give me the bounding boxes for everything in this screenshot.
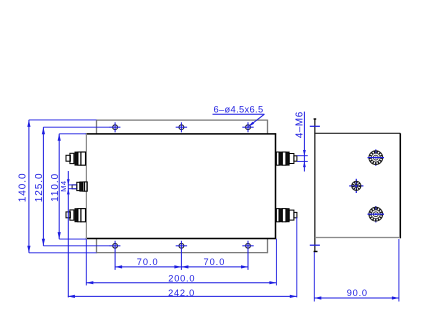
dimension 140.0 vertical line — [27, 120, 96, 253]
side view flange lip — [314, 119, 318, 253]
side view connector top M6 — [368, 149, 384, 165]
terminal stud right-top M6 — [276, 152, 297, 165]
svg-text:140.0: 140.0 — [18, 173, 29, 203]
side view hole centerline tick top — [310, 125, 320, 127]
mounting hole top-right — [242, 122, 253, 132]
dimension 90.0 — [314, 239, 399, 302]
dimension 125.0 vertical line — [42, 127, 109, 246]
dimension 200.0 — [86, 239, 276, 286]
svg-text:125.0: 125.0 — [34, 173, 45, 203]
svg-text:70.0: 70.0 — [203, 257, 225, 267]
svg-text:4–M6: 4–M6 — [294, 111, 305, 138]
svg-text:70.0: 70.0 — [137, 257, 159, 267]
svg-text:242.0: 242.0 — [168, 288, 195, 298]
side view connector middle M4 — [349, 179, 363, 193]
mounting hole top-left — [109, 122, 120, 132]
mounting hole bottom-right — [242, 241, 253, 270]
label 6-dia4.5x6.5 with leader — [213, 114, 265, 127]
terminal stud left-bottom M6 — [66, 209, 86, 222]
mounting hole bottom-left — [109, 241, 120, 270]
side view body box — [315, 133, 401, 238]
terminal stud left-top M6 — [66, 152, 86, 165]
side view connector bottom M6 — [368, 206, 384, 222]
dimension M4 with arrows — [67, 171, 77, 297]
mounting hole bottom-middle — [176, 241, 187, 270]
svg-text:90.0: 90.0 — [347, 288, 368, 298]
front view body box — [86, 133, 276, 239]
dimension 70.0 second — [181, 265, 248, 268]
side view hole centerline tick bottom — [310, 244, 320, 246]
dimension 242.0 — [68, 217, 297, 298]
front view flange plate outline — [97, 120, 268, 254]
terminal stud right-bottom M6 — [276, 209, 297, 222]
svg-text:6–ø4.5x6.5: 6–ø4.5x6.5 — [213, 104, 263, 114]
label 4-M6 with dimension — [297, 112, 308, 172]
svg-text:200.0: 200.0 — [168, 273, 195, 283]
dimension 70.0 first — [115, 265, 181, 268]
mounting hole top-middle — [176, 122, 187, 132]
svg-text:M4: M4 — [59, 181, 68, 192]
dimension 110.0 vertical line — [58, 134, 86, 239]
terminal stud left-middle M4 — [72, 182, 87, 191]
